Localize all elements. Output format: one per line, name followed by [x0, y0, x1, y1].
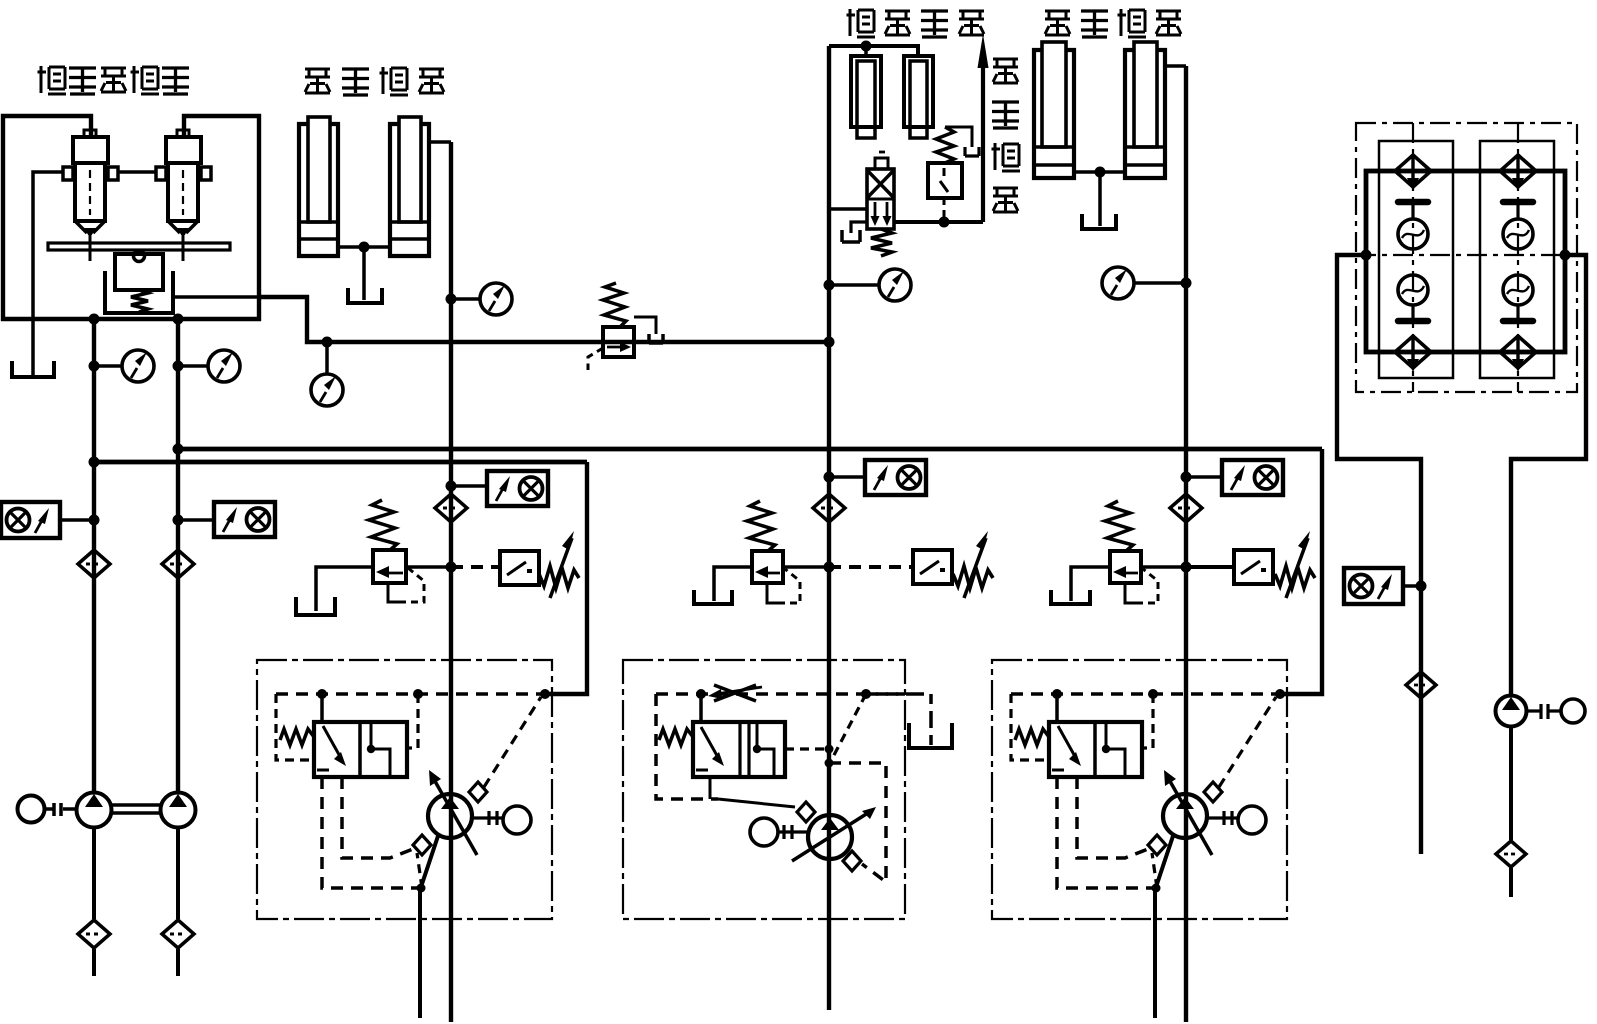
drain drop right cylinders — [1098, 172, 1102, 226]
dashed pilot loop right 2 — [829, 763, 886, 882]
wire cylinder L2 to main line — [429, 140, 451, 144]
node: group3 valve junction — [1181, 562, 1192, 573]
group3 line to electric switch — [1186, 565, 1234, 569]
suction filter A — [78, 920, 110, 948]
wire between cylinder rod ends — [338, 245, 390, 249]
variable pump unit 2 — [623, 660, 952, 919]
group1 relief valve — [369, 500, 424, 602]
node: junction column B / pressure switch — [173, 515, 184, 526]
nozzle flapper unit left — [63, 130, 118, 261]
pump case drain motor link — [471, 811, 503, 825]
wire: left column B (x=178) — [176, 319, 180, 792]
tank under crossbeam cylinders — [348, 288, 382, 303]
wire: bus2 drop to pump box 1 pilot — [545, 462, 587, 694]
filter on right column — [1406, 672, 1436, 698]
crossbeam balance cylinder L2 — [390, 117, 429, 256]
wire solenoid valve to release line — [894, 220, 983, 224]
node: bus2 start junction — [89, 457, 100, 468]
filter on column A — [78, 550, 110, 578]
node: manifold right port — [1560, 250, 1571, 261]
balance beam plate — [48, 243, 230, 250]
wire: left column A (x=94) — [92, 319, 96, 792]
gauge group2 top — [829, 283, 879, 287]
pressure switch far-left — [1, 502, 60, 538]
node: pilot rail mid — [413, 689, 423, 699]
solenoid valve tank port — [851, 222, 867, 233]
node: gauge junction B — [173, 361, 184, 372]
dashed pilot loop outer — [322, 777, 418, 888]
node: group1 valve junction — [446, 562, 457, 573]
dashed drop rail to valve right port — [407, 694, 418, 748]
arrow up (balance release direction) — [978, 34, 989, 222]
node: group1 pressure switch junction — [446, 481, 457, 492]
wire: pressure switch to column A — [60, 518, 94, 522]
suction line A below pump — [92, 828, 96, 919]
throttle on rail2 — [714, 685, 756, 701]
drop rail2 to valve port — [699, 694, 703, 722]
pilot dashed branch to valve spring side — [276, 694, 312, 760]
crossbeam balance right cylinder R2 — [1125, 42, 1165, 178]
wire: main vertical line group1 (x=451) — [449, 142, 453, 1022]
link loop to pump port — [718, 799, 795, 807]
node: cylinder M1 feed — [861, 41, 872, 52]
throttle check top-left — [1395, 154, 1431, 191]
pivot ball — [134, 251, 145, 262]
drain line to tank 2 — [866, 692, 914, 696]
pump2 control port upper-left — [797, 802, 815, 822]
flow indicator lower-left — [1398, 275, 1428, 321]
spring bracket — [105, 271, 173, 313]
node: gauge junction group3 top — [1181, 278, 1192, 289]
wire: auxiliary pump suction — [1509, 727, 1513, 840]
wire: manifold left to filter column — [1337, 255, 1421, 854]
node: main/pilot junction b — [825, 759, 834, 768]
variable displacement pump — [428, 794, 472, 838]
suction pipe A end — [92, 949, 96, 976]
wire: bus1 drop to pump box 3 pilot — [1278, 449, 1322, 694]
tank under right crossbeam cylinders — [1082, 214, 1116, 229]
pilot control dashed rail — [276, 692, 545, 696]
group3 adjustable spring — [1275, 531, 1315, 598]
gauge A — [94, 364, 122, 368]
wire: main horizontal line (y=342) from regulator to milling-head group — [259, 297, 829, 342]
group2 relief valve — [747, 501, 800, 603]
group1 valve inlet line and tank — [316, 567, 373, 611]
wire cylinder R2 to main line 3 — [1165, 64, 1186, 68]
pump unit 2 enclosure — [623, 660, 905, 919]
tank group3 — [1051, 590, 1090, 604]
node: cylinder drain junction — [359, 242, 370, 253]
group2 pilot line to electric switch — [829, 565, 913, 569]
stub to cylinder M1 — [864, 46, 868, 56]
node: junction at x=829 on y=342 line — [824, 337, 835, 348]
auxiliary suction filter — [1496, 841, 1526, 867]
auxiliary pump coupling — [1527, 704, 1561, 719]
suction line B below pump — [176, 828, 180, 919]
wire: manifold right to auxiliary pump — [1511, 255, 1586, 696]
drain circle 2 — [750, 818, 778, 846]
wire: pressure switch to column B — [178, 518, 214, 522]
node: gauge junction group1 top — [446, 294, 457, 305]
control valve 2 spring — [659, 729, 693, 745]
wire between right cylinder rod ends — [1074, 170, 1125, 174]
flow indicator upper-right — [1503, 202, 1533, 249]
pump2 control port lower-right — [843, 851, 861, 871]
node: manifold left port — [1361, 250, 1372, 261]
electric motor for pumps — [18, 796, 77, 823]
filter on column B — [162, 550, 194, 578]
pilot control dashed rail 2 — [656, 692, 905, 696]
tank group1 — [296, 597, 335, 615]
pressure switch second-left — [214, 502, 275, 537]
node: pilot loop on suction line — [417, 884, 426, 893]
regulator enclosure box — [3, 116, 259, 319]
gauge below main line — [325, 342, 329, 374]
wire top feed of milling head cylinders — [829, 46, 918, 56]
gauge B — [178, 364, 208, 368]
node: group2 valve junction — [824, 562, 835, 573]
milling head cylinder M2 — [904, 56, 933, 138]
chain centerline left column — [1412, 123, 1414, 392]
group1 valve outlet to main — [406, 565, 451, 569]
group3 valve inlet line and tank — [1071, 567, 1110, 601]
manifold thick frame — [1366, 171, 1565, 352]
node: rail2 right — [861, 689, 871, 699]
flow indicator upper-left — [1398, 202, 1428, 249]
variable pump unit 3 (same as unit 1, shifted) — [992, 660, 1287, 1018]
auxiliary suction end — [1509, 868, 1513, 897]
node: right cylinder drain junction — [1095, 167, 1106, 178]
tank below regulator left — [12, 361, 54, 377]
valve2 bottom link — [709, 777, 712, 799]
label: 横梁平衡 (crossbeam balance) left — [305, 67, 444, 95]
node: pilot rail feed — [540, 689, 550, 699]
label: 相应调节器 (corresponding regulator) — [38, 66, 190, 94]
group2 electric switch — [913, 550, 952, 584]
variable pump unit 1 — [257, 660, 552, 1018]
tank for pump2 drain — [909, 723, 952, 748]
pump PA (fixed) — [77, 793, 112, 828]
node: pilot rail left — [317, 689, 327, 699]
group3 relief valve — [1105, 501, 1158, 603]
wire main line to solenoid valve — [829, 207, 867, 211]
flow indicator lower-right — [1503, 275, 1533, 321]
wire between nozzle side ports — [118, 170, 156, 174]
drive shaft between pumps — [112, 805, 161, 813]
group3 filter — [1170, 494, 1202, 522]
dashed pilot loop inner — [342, 777, 413, 858]
pump PB (fixed) — [161, 793, 196, 828]
label: 横梁平衡 (crossbeam balance) right — [1045, 9, 1181, 37]
group2 valve outlet to main — [783, 565, 829, 569]
node: group3 pressure switch junction — [1181, 472, 1192, 483]
wire bracket to box edge — [173, 295, 259, 299]
wire: supply bus 1 (y=449) — [178, 447, 1322, 452]
node: gauge junction group2 top — [824, 280, 835, 291]
control valve 2 — [693, 722, 785, 777]
group1 pressure switch — [451, 484, 487, 488]
auxiliary pump — [1496, 696, 1527, 727]
group3 electric switch — [1234, 550, 1273, 584]
node: rail2 left — [696, 689, 706, 699]
group2 filter — [813, 494, 845, 522]
wire: supply bus 2 (y=462) — [94, 460, 587, 465]
milling head cylinder M1 — [851, 56, 881, 138]
suction filter B — [162, 920, 194, 948]
drain circle — [503, 806, 531, 834]
group1 filter — [435, 494, 467, 522]
label: 铣头平衡 (milling head balance) — [847, 9, 985, 37]
group1 electric switch — [500, 551, 539, 585]
throttle check bottom-right — [1500, 335, 1536, 372]
dashed valve2 output to main — [785, 747, 829, 750]
variable displacement pump 2 — [808, 815, 852, 859]
node: right pressure switch junction — [1416, 581, 1427, 592]
right pressure switch — [1344, 568, 1403, 604]
right manifold outer chain-line box — [1356, 123, 1577, 392]
node: junction at x=327 on y=342 line — [322, 337, 333, 348]
pump control port upper — [469, 782, 487, 802]
group3 valve outlet to main — [1141, 565, 1186, 569]
group2 valve inlet line and tank — [714, 567, 752, 601]
group2 pressure switch — [829, 475, 865, 479]
auxiliary motor — [1561, 699, 1585, 723]
feedback spring — [131, 290, 148, 312]
node: pilot valve drop junction — [939, 217, 950, 228]
node: regulator output left — [89, 314, 100, 325]
pump control port lower — [413, 835, 431, 855]
drain drop to tank — [362, 247, 366, 300]
inner cartridge box left — [1379, 141, 1453, 378]
solenoid valve (balance release) — [867, 152, 894, 256]
wire: main vertical line group3 (x=1186) — [1184, 66, 1188, 1022]
dashed diagonal rail2 to junction — [833, 694, 866, 757]
pilot poppet valve (weighing release) — [928, 127, 979, 222]
inner cartridge box right — [1480, 141, 1554, 378]
chain centerline horizontal — [1356, 254, 1577, 256]
control valve spring — [280, 729, 314, 745]
pilot dashed loop left 2 — [656, 694, 718, 799]
node: bus1 start junction — [173, 444, 184, 455]
wire: main vertical line group2 (x=829) — [827, 46, 831, 1010]
throttle check bottom-left — [1395, 335, 1431, 372]
node: gauge junction A — [89, 361, 100, 372]
chain centerline right column — [1517, 123, 1519, 392]
node: main/pilot junction a — [825, 745, 834, 754]
group1 pilot line to electric switch — [451, 565, 500, 569]
gauge group1 top — [451, 297, 479, 301]
tank group2 — [694, 590, 732, 604]
control valve (2-position) — [314, 722, 407, 777]
gauge group3 top — [1134, 281, 1186, 285]
group2 adjustable spring — [953, 531, 993, 598]
feedback spring box — [115, 254, 163, 290]
throttle check top-right — [1500, 154, 1536, 191]
pump unit enclosure — [257, 660, 552, 919]
relief valve RV0 on main line — [588, 283, 663, 370]
node: junction column A / pressure switch — [89, 515, 100, 526]
group1 adjustable spring — [539, 531, 579, 598]
pump2 case drain link — [778, 825, 809, 839]
nozzle flapper unit right — [156, 130, 211, 261]
suction line diagonal — [420, 836, 438, 1018]
wire from left nozzle port to drain — [33, 172, 63, 375]
tank at solenoid valve — [842, 230, 860, 242]
label: 衡量放松 (balance release) vertical — [992, 59, 1021, 212]
group3 pressure switch — [1186, 475, 1222, 479]
crossbeam balance right cylinder R1 — [1034, 42, 1074, 178]
suction pipe B end — [176, 949, 180, 976]
node: group2 pressure switch junction — [824, 472, 835, 483]
crossbeam balance cylinder L1 — [299, 117, 338, 256]
drop rail to valve port — [320, 694, 324, 722]
node: regulator output right — [173, 314, 184, 325]
